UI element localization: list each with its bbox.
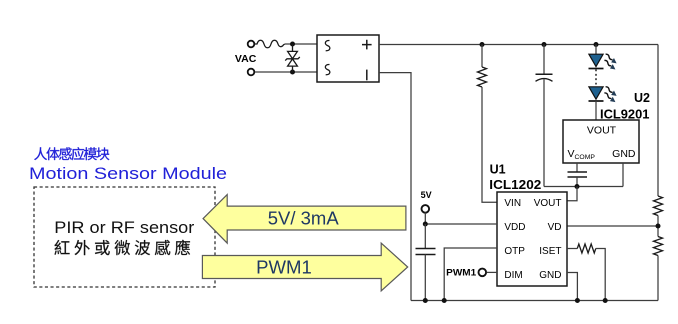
junction top rail at LED string [594,42,599,47]
wire top rail (+) [379,44,658,46]
junction VD node [656,224,661,229]
junction R4 ground [603,298,608,303]
wire U1 VOUT up to node [567,187,577,201]
svg-text:U1: U1 [490,162,506,176]
op-amp U1 box ICL1202 [497,192,567,286]
motion sensor module dashed box [34,187,215,287]
junction U1 GND [575,298,580,303]
junction feedback node [575,184,580,189]
wire bridge minus down [379,73,411,301]
terminal PWM1 [479,269,487,277]
arrow 5V/3mA (left) [203,195,406,244]
junction OTP ground [442,298,447,303]
svg-text:DIM: DIM [504,270,522,281]
wire R2 to bottom rail [657,256,659,301]
junction top AC node [290,42,295,47]
svg-text:VOUT: VOUT [534,198,562,209]
svg-text:PWM1: PWM1 [446,267,476,277]
wire right rail upper [657,45,659,197]
wire U1 GND down [567,273,577,301]
wire PWM1 to DIM [487,271,497,273]
terminal 5V [422,205,430,213]
svg-text:VOUT: VOUT [587,125,617,137]
svg-text:ISET: ISET [539,246,561,257]
junction top rail at R3 [480,42,485,47]
wire feedback node [544,186,623,188]
wire U2 GND down [622,163,624,187]
svg-text:5V: 5V [421,190,432,200]
resistor R2 (lower right) [654,237,663,256]
wire VD to divider [567,225,658,227]
svg-text:PWM1: PWM1 [256,256,312,277]
wire 5V node down to C3 [424,224,426,248]
terminal VAC bottom [248,69,255,76]
LED D2 [589,85,619,104]
wire OTP to ground [444,248,497,301]
svg-text:5V/ 3mA: 5V/ 3mA [268,207,340,228]
label 紅外或微波感應 [54,240,190,255]
svg-text:U2: U2 [634,91,650,105]
wire bottom rail [411,300,658,302]
op-amp U2 box ICL9201 [563,120,639,163]
label 人体感应模块 [34,147,109,160]
svg-text:Motion Sensor Module: Motion Sensor Module [29,164,227,183]
capacitor C1 (bulk) [536,45,553,187]
wire 5V to VDD [425,212,497,224]
TVS diode (bidirectional) [285,44,300,72]
junction 5V node [423,222,428,227]
fuse F1 [255,40,285,48]
wire VCOMP down [576,163,578,172]
terminal VAC top [248,41,255,48]
svg-text:VD: VD [548,222,562,233]
resistor R3 (VIN feed) [478,45,498,203]
junction C3 ground [423,298,428,303]
svg-text:VIN: VIN [504,198,521,209]
wire C3 to bottom rail [424,255,426,301]
svg-text:GND: GND [612,148,636,160]
junction top rail at C1 [542,42,547,47]
arrow PWM1 (right) [202,243,407,291]
dashed wire LED string continuation [595,70,597,86]
wire C2 to node [576,177,578,187]
capacitor C2 (comp) [568,172,588,177]
svg-text:ICL9201: ICL9201 [600,107,649,121]
svg-text:ICL1202: ICL1202 [489,178,541,192]
wire between R1 and R2 [657,216,659,237]
LED D1 [589,52,619,71]
svg-text:PIR or RF sensor: PIR or RF sensor [54,218,194,237]
bridge rectifier BR1 [317,35,379,82]
svg-text:VAC: VAC [235,53,257,65]
junction bottom AC node [290,70,295,75]
svg-text:VDD: VDD [504,222,525,233]
resistor R4 (ISET) [567,244,605,301]
resistor R1 (upper right) [654,196,663,216]
wire to LED D1 [595,45,597,55]
wire LED D2 to U2 [595,101,597,120]
capacitor C3 (5V bypass) [416,249,436,255]
svg-text:GND: GND [539,270,561,281]
svg-text:OTP: OTP [504,246,525,257]
wire fuse to bridge [285,43,317,45]
wire VAC bottom to bridge [255,71,317,73]
